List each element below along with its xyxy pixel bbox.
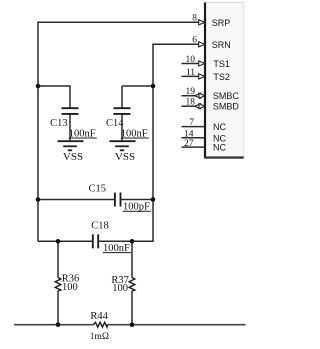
svg-text:C13: C13: [50, 118, 68, 129]
svg-text:TS1: TS1: [213, 59, 230, 69]
svg-text:SRP: SRP: [212, 18, 231, 28]
svg-text:C15: C15: [89, 183, 107, 194]
svg-text:6: 6: [192, 36, 197, 46]
svg-text:11: 11: [186, 68, 195, 78]
svg-text:C18: C18: [91, 221, 109, 232]
svg-text:100: 100: [112, 283, 128, 294]
svg-text:VSS: VSS: [115, 151, 135, 163]
svg-text:27: 27: [184, 139, 194, 149]
svg-text:NC: NC: [213, 122, 226, 132]
svg-text:19: 19: [186, 87, 196, 97]
svg-text:C14: C14: [106, 118, 124, 129]
svg-text:100: 100: [62, 282, 78, 293]
svg-text:10: 10: [186, 55, 196, 65]
svg-text:8: 8: [192, 14, 197, 24]
svg-text:TS2: TS2: [213, 72, 230, 82]
svg-text:SRN: SRN: [212, 40, 231, 50]
svg-text:7: 7: [189, 118, 194, 128]
svg-text:SMBC: SMBC: [213, 91, 240, 101]
svg-text:18: 18: [186, 98, 196, 108]
svg-text:SMBD: SMBD: [213, 102, 240, 112]
svg-text:R44: R44: [90, 311, 108, 322]
svg-text:NC: NC: [213, 143, 226, 153]
svg-text:1mΩ: 1mΩ: [90, 332, 109, 342]
svg-text:VSS: VSS: [63, 151, 83, 163]
